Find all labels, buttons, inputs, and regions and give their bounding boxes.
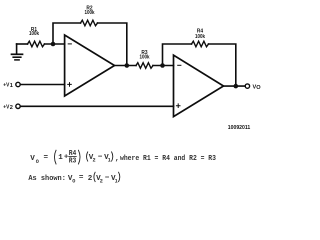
svg-text:2: 2 (88, 175, 93, 183)
resistor R4 (192, 41, 209, 47)
svg-text:100k: 100k (140, 55, 151, 61)
svg-text:R3: R3 (69, 158, 77, 166)
svg-text:100k: 100k (85, 10, 96, 16)
terminal VO (245, 84, 249, 88)
wire: ground to R1 (17, 43, 28, 45)
svg-text:1: 1 (108, 157, 111, 163)
svg-text:2: 2 (10, 105, 13, 111)
wire: R2 to U1 output node (98, 23, 127, 66)
wire: +V1 terminal to U1 non-inverting input (20, 84, 64, 86)
terminal +V2 (16, 104, 20, 108)
input label +V2 (3, 104, 13, 111)
resistor R1 (28, 41, 45, 47)
formula line 1 (30, 150, 216, 166)
junction output node (234, 84, 239, 89)
input label +V1 (3, 83, 13, 90)
svg-text:1: 1 (10, 83, 13, 89)
svg-text:,: , (115, 155, 120, 163)
U2 plus pin label (176, 104, 180, 108)
op-amp U2 (174, 55, 224, 116)
U2 minus pin label (178, 64, 181, 66)
svg-text:+V: +V (3, 104, 9, 110)
U1 plus pin label (68, 83, 72, 87)
svg-text:where R1 = R4 and R2 = R3: where R1 = R4 and R2 = R3 (120, 155, 216, 163)
svg-text:O: O (36, 159, 39, 165)
svg-text:=: = (44, 154, 49, 162)
svg-text:O: O (72, 179, 75, 185)
svg-text:+V: +V (3, 83, 9, 89)
output label VO (253, 84, 262, 91)
svg-text:100k: 100k (195, 34, 206, 40)
svg-text:1: 1 (58, 154, 63, 162)
U1 minus pin label (68, 43, 71, 45)
op-amp U1 (65, 35, 115, 96)
svg-text:1: 1 (115, 178, 118, 184)
svg-text:V: V (30, 155, 35, 163)
svg-text:=: = (79, 174, 84, 182)
junction node B (160, 63, 165, 68)
wire: node A up to R2 feedback (53, 23, 81, 44)
wire: U1 output to R3 (115, 65, 137, 67)
wire: R3 to U2 inverting input, node B (153, 65, 174, 67)
svg-text:2: 2 (100, 178, 103, 184)
ground (12, 44, 23, 60)
wire: U2 output to VO terminal (224, 85, 246, 87)
formula line 2 (28, 172, 119, 185)
svg-text:O: O (256, 85, 261, 91)
resistor R3 (136, 63, 153, 69)
wire: R4 to output node (209, 44, 236, 86)
svg-text:2: 2 (93, 157, 96, 163)
wire: node B up to R4 feedback (163, 44, 192, 66)
junction node A (51, 42, 56, 47)
wire: +V2 terminal to U2 non-inverting input (20, 105, 173, 107)
svg-text:100k: 100k (29, 31, 40, 37)
svg-text:As shown:: As shown: (28, 175, 66, 183)
terminal +V1 (16, 82, 20, 86)
junction U1 output (125, 63, 130, 68)
resistor R2 (81, 20, 98, 26)
svg-text:10092011: 10092011 (228, 125, 251, 131)
wire: R1 to op-amp U1 inverting input, node A (45, 43, 65, 45)
